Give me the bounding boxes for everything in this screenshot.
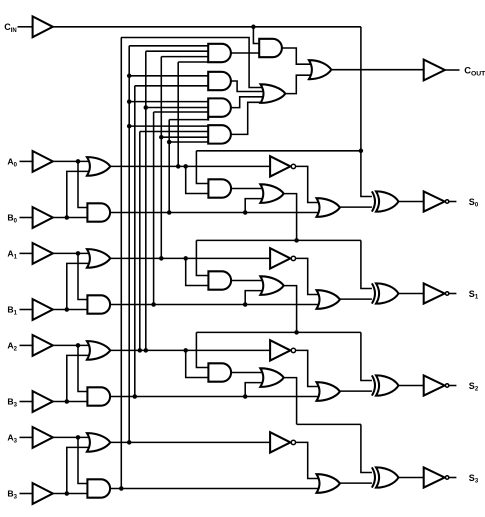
buffer B row 2 [33, 391, 53, 412]
junction G1 branch to OR b1 [243, 302, 248, 307]
OR gate P3 (A OR B) [87, 433, 110, 452]
junction P1 riser tap [159, 135, 164, 140]
buffer A3 [33, 427, 53, 448]
wire P0 down to AND a0 pin2 [186, 166, 209, 193]
wire B label stub row 0 [20, 217, 33, 219]
XOR gate X1 [372, 283, 375, 303]
OR gate b2 (carry C3) [260, 368, 283, 387]
junction P3 riser tap [127, 124, 132, 129]
wire T1 out to OR4 pin2 [231, 81, 264, 92]
wire P2 line to inverter [110, 349, 270, 351]
wire A0 label stub [20, 160, 33, 162]
junction P2b riser on source line [138, 348, 143, 353]
wire A3 label stub [20, 436, 33, 438]
wire AND a0 out to OR b0 pin1 [231, 188, 263, 190]
buffer A0 [33, 151, 53, 172]
wire riser P1 to array gate input y=137.2 [161, 136, 208, 138]
wire riser G0 to array gate input y=142.0 [169, 141, 208, 143]
junction B row 2 branch [65, 399, 70, 404]
junction G2 riser on source line [133, 394, 138, 399]
wire C_OUT stub [445, 69, 460, 71]
wire A0 to OR P0 pin1 [53, 160, 90, 162]
svg-text:S1: S1 [469, 289, 479, 301]
wire riser P3 to array gate input y=126.1 [129, 125, 208, 127]
AND gate T4 (P3 P2 P1 P0) [208, 44, 231, 62]
wire riser G1 vertical [153, 112, 155, 305]
junction P2 branch to AND a2 [183, 348, 188, 353]
wire B row 1 to AND G1 pin2 [53, 309, 88, 311]
wire carry C1 elbow down to AND a1 pin1 [196, 240, 208, 275]
junction G0 riser tap [167, 140, 172, 145]
junction P0 riser on source line [176, 164, 181, 169]
OR gate b1 (carry C2) [260, 276, 283, 295]
AND gate G3 (A AND B) [87, 479, 110, 497]
wire riser G2 to array gate input y=85.8 [135, 85, 208, 87]
wire riser P3 to array gate input y=75.8 [129, 75, 208, 77]
wire T2 out to OR4 pin3 [231, 97, 264, 108]
wire riser P2a to array gate input y=51.2 [146, 50, 208, 52]
wire XOR0 out to S0 buffer [399, 201, 424, 203]
svg-text:A3: A3 [7, 433, 17, 445]
wire C0 branch horizontal [196, 150, 361, 152]
OR gate c2 (NOT2 OR G2) [317, 382, 340, 401]
wire A1 down to AND G1 pin1 [78, 253, 87, 299]
wire A1 label stub [20, 252, 33, 254]
inverter NOT0 [270, 156, 290, 176]
wire A2 label stub [20, 344, 33, 346]
AND gate T1 (P3 G2) [208, 72, 231, 90]
wire S0 stub [449, 201, 457, 203]
wire OR c0 out to XOR0 pin2 [340, 206, 373, 208]
junction P3 riser tap [127, 99, 132, 104]
wire carry C3 distribution line [297, 423, 361, 425]
wire OR5 out to C_OUT buffer [331, 69, 423, 71]
junction A1 branch [76, 251, 81, 256]
wire A2 to OR P2 pin1 [53, 344, 90, 346]
junction A0 branch [76, 159, 81, 164]
wire carry C3 vertical to XOR3 [361, 424, 373, 472]
wire P1 down to AND a1 pin2 [186, 258, 209, 285]
wire carry C0 elbow down to AND a0 pin1 [196, 151, 208, 184]
junction P2a riser tap [144, 105, 149, 110]
wire NOT2 out to OR C2 pin1 [296, 350, 319, 386]
OR gate U4 (G3+T1+T2+T3) [261, 84, 286, 103]
wire XOR2 out to S2 buffer [399, 385, 424, 387]
wire riser P0 vertical [177, 62, 179, 166]
buffer S0 output [424, 191, 445, 211]
AND gate T2 input-edge extension [207, 117, 209, 121]
wire S3 stub [449, 477, 457, 479]
inverter NOT2 [270, 340, 290, 360]
wire G0 line to sum OR [110, 212, 319, 214]
svg-text:B3: B3 [7, 397, 17, 409]
wire B row 3 up to OR P3 pin2 [67, 447, 90, 493]
junction B row 1 branch [65, 307, 70, 312]
wire carry C1 vertical to XOR1 [361, 240, 373, 288]
wire B row 1 up to OR P1 pin2 [67, 263, 90, 309]
wire XOR1 out to S1 buffer [399, 293, 424, 295]
wire A3 down to AND G3 pin1 [78, 437, 87, 483]
junction G2 branch to OR b2 [243, 394, 248, 399]
svg-text:B0: B0 [7, 213, 17, 225]
buffer S3 output [424, 467, 445, 487]
wire B label stub row 2 [20, 401, 33, 403]
wire P1 line to inverter [110, 257, 270, 259]
wire riser P2b to array gate input y=131.5 [140, 131, 208, 133]
junction C_IN / AND5 stub [251, 25, 256, 30]
wire T3 out to OR4 pin4 [231, 102, 264, 134]
wire OR c3 out to XOR3 pin2 [340, 482, 373, 484]
AND gate U5 (C_IN AND T4) [259, 39, 282, 57]
wire B row 2 to AND G2 pin2 [53, 401, 88, 403]
wire B row 0 up to OR P0 pin2 [67, 171, 90, 217]
buffer S2 output [424, 375, 445, 395]
buffer B row 0 [33, 207, 53, 228]
junction carry C2 on distribution line [294, 330, 299, 335]
junction B row 0 branch [65, 215, 70, 220]
wire P0 line to inverter [110, 165, 270, 167]
wire riser P0 to array gate input y=62.0 [178, 61, 208, 63]
buffer A1 [33, 243, 53, 264]
AND gate a2 (C2 AND P2) [208, 363, 231, 381]
wire OR c1 out to XOR1 pin2 [340, 298, 373, 300]
wire riser P3 to array gate input y=101.6 [129, 101, 208, 103]
wire G1 up to OR b1 pin2 [245, 291, 263, 305]
buffer U_CIN (C_IN input buffer) [33, 16, 53, 37]
buffer B row 3 [33, 483, 53, 504]
OR gate U6 (carry out OR) [309, 60, 331, 79]
XOR gate X2 [372, 375, 375, 395]
junction carry C1 on distribution line [294, 238, 299, 243]
wire AND a1 out to OR b1 pin1 [231, 280, 263, 282]
AND gate a1 (C1 AND P1) [208, 271, 231, 289]
wire B row 3 to AND G3 pin2 [53, 493, 88, 495]
OR gate P1 (A OR B) [87, 249, 110, 268]
junction B row 3 branch [65, 491, 70, 496]
wire C_IN label stub [18, 26, 33, 28]
wire riser P1 to array gate input y=56.6 [161, 56, 208, 58]
wire carry C2 elbow down to AND a2 pin1 [196, 332, 208, 367]
AND gate G2 (A AND B) [87, 387, 110, 405]
wire G3 hook top [121, 38, 263, 88]
wire carry C3 from OR b2 down [284, 378, 297, 425]
wire NOT1 out to OR C1 pin1 [296, 258, 319, 294]
wire G1 line to sum OR [110, 304, 319, 306]
wire riser P3 to array gate input y=45.8 [129, 45, 208, 47]
junction P0 branch to AND a0 [183, 164, 188, 169]
AND gate T3 (P3 P2 P1 G0) [208, 125, 231, 143]
junction G0 branch to OR b0 [243, 210, 248, 215]
wire OR4 out to OR5 pin2 [285, 75, 312, 93]
wire P3 line to inverter [110, 441, 270, 443]
svg-text:COUT: COUT [464, 65, 485, 78]
buffer S1 output [424, 283, 445, 303]
svg-text:B1: B1 [7, 305, 17, 317]
wire C_IN branch down to AND5 pin1 [253, 27, 259, 44]
wire B label stub row 1 [20, 309, 33, 311]
wire G2 line to sum OR [110, 396, 319, 398]
wire G0 up to OR b0 pin2 [245, 199, 263, 213]
wire B label stub row 3 [20, 493, 33, 495]
wire carry C1 distribution line [196, 239, 361, 241]
wire A2 down to AND G2 pin1 [78, 345, 87, 391]
junction P3 riser tap [127, 74, 132, 79]
svg-text:CIN: CIN [4, 22, 17, 34]
wire riser G1 to array gate input y=112.0 [154, 111, 209, 113]
wire B row 0 to AND G0 pin2 [53, 217, 88, 219]
junction P3 riser on source line [127, 440, 132, 445]
wire A0 down to AND G0 pin1 [78, 161, 87, 207]
wire AND a2 out to OR b2 pin1 [231, 372, 263, 374]
wire G3 line to sum OR [110, 488, 319, 490]
junction A2 branch [76, 343, 81, 348]
wire carry C2 vertical to XOR2 [361, 332, 373, 380]
wire S2 stub [449, 385, 457, 387]
OR gate b0 (carry C1) [260, 184, 283, 203]
wire riser P1 vertical [160, 57, 162, 259]
wire G2 up to OR b2 pin2 [245, 383, 263, 397]
wire OR c2 out to XOR2 pin2 [340, 390, 373, 392]
wire B row 2 up to OR P2 pin2 [67, 355, 90, 401]
junction G0 riser on source line [167, 210, 172, 215]
OR gate c0 (NOT0 OR G0) [317, 198, 340, 217]
svg-text:S0: S0 [469, 197, 479, 209]
OR gate c3 (NOT3 OR G3) [317, 474, 340, 493]
OR gate P2 (A OR B) [87, 341, 110, 360]
XOR gate X3 [372, 467, 375, 487]
AND gate G1 (A AND B) [87, 295, 110, 313]
wire C_IN net: buffer out to right vertical [53, 26, 361, 28]
wire C0 vertical to XOR0 [361, 27, 373, 197]
svg-text:B3: B3 [7, 489, 17, 501]
AND gate T2 (P3 P2 G1) [208, 98, 231, 116]
AND gate G0 (A AND B) [87, 203, 110, 221]
wire AND5 out to OR5 pin1 [282, 48, 312, 64]
wire A3 to OR P3 pin1 [53, 436, 90, 438]
wire A1 to OR P1 pin1 [53, 252, 90, 254]
buffer A2 [33, 335, 53, 356]
wire T4 out to AND5 pin2 [231, 52, 259, 54]
wire riser G2 vertical [134, 86, 136, 397]
svg-text:A0: A0 [7, 157, 17, 169]
junction G1 riser on source line [151, 302, 156, 307]
wire riser P3 vertical [128, 46, 130, 443]
wire riser P2a to array gate input y=107.5 [146, 107, 208, 109]
inverter NOT1 [270, 248, 290, 268]
buffer U_COUT [424, 60, 445, 81]
svg-text:A1: A1 [7, 249, 17, 261]
wire riser G3 vertical [120, 38, 122, 489]
XOR gate X0 [372, 191, 375, 211]
svg-text:S2: S2 [469, 381, 479, 393]
svg-text:S3: S3 [469, 473, 479, 485]
wire riser P2b vertical [139, 132, 141, 351]
wire carry C2 from OR b1 down [284, 286, 297, 333]
AND gate a0 (C0 AND P0) [208, 179, 231, 197]
junction C0 branch on XOR vertical [359, 149, 364, 154]
wire NOT3 out to OR C3 pin1 [296, 442, 319, 478]
inverter NOT3 [270, 432, 290, 452]
wire S1 stub [449, 293, 457, 295]
wire carry C2 distribution line [196, 331, 361, 333]
wire riser G0 vertical [168, 120, 170, 213]
buffer B row 1 [33, 299, 53, 320]
junction P1 riser on source line [159, 256, 164, 261]
junction P1 branch to AND a1 [183, 256, 188, 261]
wire NOT0 out to OR C0 pin1 [296, 166, 319, 202]
junction P2a riser on source line [144, 348, 149, 353]
wire P2 down to AND a2 pin2 [186, 350, 209, 377]
OR gate c1 (NOT1 OR G1) [317, 290, 340, 309]
OR gate P0 (A OR B) [87, 157, 110, 176]
wire XOR3 out to S3 buffer [399, 477, 424, 479]
wire riser G0 to array gate input y=119.6 [169, 119, 208, 121]
junction A3 branch [76, 435, 81, 440]
svg-text:A2: A2 [7, 341, 17, 353]
wire carry C1 from OR b0 down [284, 194, 297, 241]
junction G3 riser on source line [119, 486, 124, 491]
wire riser P2a vertical [145, 51, 147, 350]
